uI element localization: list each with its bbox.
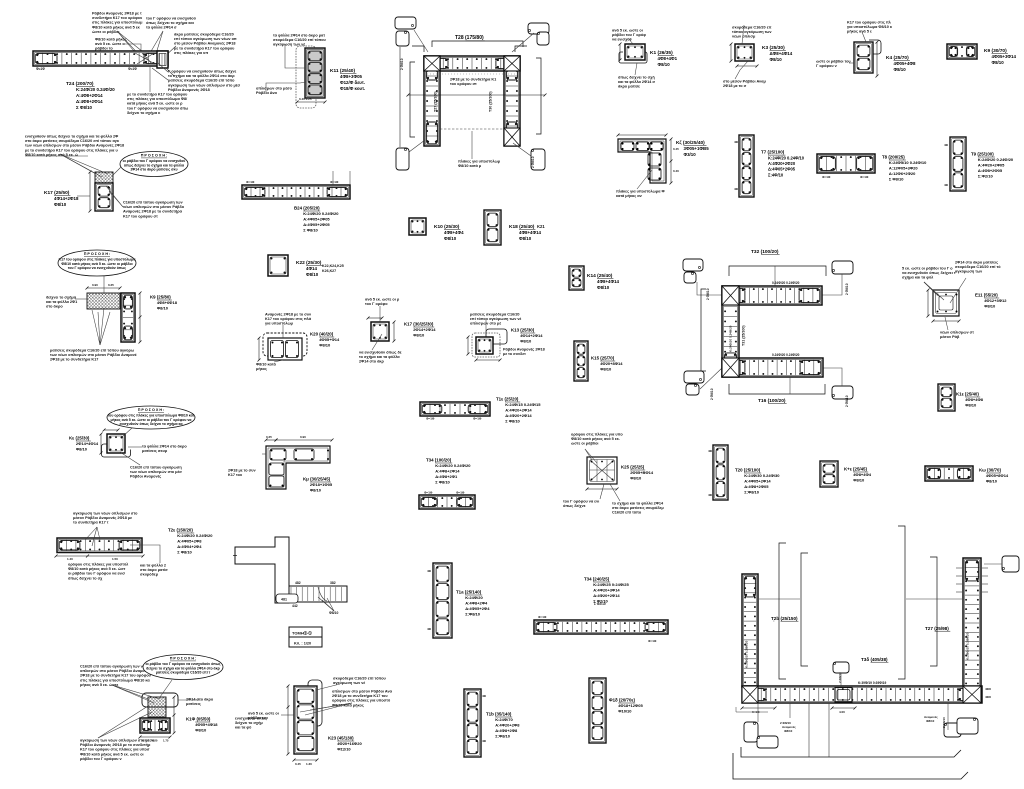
- svg-text:Κμ (30/25/45): Κμ (30/25/45): [303, 477, 331, 482]
- label T1e: [496, 397, 541, 424]
- svg-text:0.25: 0.25: [266, 435, 272, 439]
- highlighted stirrup box U mid: [835, 688, 852, 703]
- svg-text:Σ Φ8/10: Σ Φ8/10: [303, 228, 318, 233]
- leader fan A1-2: [150, 31, 163, 57]
- svg-text:Φ8/10: Φ8/10: [319, 343, 331, 348]
- note text T28 bottom: [458, 159, 501, 168]
- note text K17b bottom: [359, 350, 402, 363]
- svg-text:Φ8/10: Φ8/10: [853, 478, 865, 483]
- svg-text:Δ:4Φ8+2Φ05: Δ:4Φ8+2Φ05: [978, 168, 1003, 173]
- svg-text:4Φ05+4Φ18: 4Φ05+4Φ18: [195, 722, 218, 727]
- svg-text:Σ:Φ8/10: Σ:Φ8/10: [495, 734, 511, 739]
- svg-text:να ενισχυθούν όπως δε: να ενισχυθούν όπως δε: [359, 350, 402, 354]
- svg-text:όπως δείχνε: όπως δείχνε: [563, 504, 586, 508]
- svg-text:ματίσεις σκυρόδεμα C16/20: ματίσεις σκυρόδεμα C16/20: [470, 312, 520, 316]
- note text T28 mid: [450, 77, 496, 86]
- beam section K9: [947, 44, 977, 59]
- svg-text:4Φ8+4Φ8: 4Φ8+4Φ8: [965, 397, 984, 402]
- column section K23: [294, 686, 317, 754]
- leader fan mid: [92, 308, 110, 345]
- svg-text:Κ:3ΦΦ/10 0.2Φ8/20: Κ:3ΦΦ/10 0.2Φ8/20: [745, 640, 749, 668]
- bracket U right inner: [930, 557, 937, 666]
- svg-text:C16/20 επί τόπο: C16/20 επί τόπο: [612, 511, 642, 515]
- note text K1 top: [612, 28, 646, 41]
- svg-text:382: 382: [330, 581, 336, 585]
- svg-text:και τα φύ: και τα φύ: [235, 726, 252, 730]
- svg-text:Φ8/10: Φ8/10: [770, 57, 783, 62]
- column K11 wavy jacket: [296, 46, 316, 108]
- svg-text:Κ17 του ορόφου στις πλάκες για: Κ17 του ορόφου στις πλάκες για υποσ: [80, 748, 150, 752]
- dimension K17b top: [367, 317, 384, 320]
- label K14: [587, 273, 620, 290]
- hatched jacket K17: [95, 172, 113, 183]
- leader Km: [262, 453, 266, 455]
- svg-text:Φ8/10: Φ8/10: [986, 479, 998, 484]
- leader U right top: [984, 563, 1002, 565]
- svg-text:Α:4Φ8+2Φ14: Α:4Φ8+2Φ14: [435, 469, 460, 474]
- column section K25: [587, 457, 617, 484]
- label K10: [434, 224, 464, 241]
- svg-text:Α:4Φ05+2Φ8: Α:4Φ05+2Φ8: [177, 539, 202, 544]
- svg-text:Σ Φ8/10: Σ Φ8/10: [889, 177, 904, 182]
- svg-text:4Φ14+2Φ18: 4Φ14+2Φ18: [54, 196, 79, 201]
- svg-text:5 εκ. ώστε οι ράβδοι του Γ ο: 5 εκ. ώστε οι ράβδοι του Γ ο: [902, 266, 953, 270]
- dimension K17b right: [393, 321, 396, 343]
- svg-text:4Φ8+6Φ18: 4Φ8+6Φ18: [157, 300, 178, 305]
- svg-text:με το συνδετ: με το συνδετ: [503, 352, 526, 356]
- svg-text:0.90: 0.90: [300, 435, 306, 439]
- svg-text:ενισχυθούν όπως δείχνει το σχή: ενισχυθούν όπως δείχνει το σχήμα και τα …: [25, 134, 118, 138]
- svg-text:Δ:4Φ8+2Φ05: Δ:4Φ8+2Φ05: [744, 484, 769, 489]
- leader C BL: [700, 368, 722, 389]
- svg-text:2Φ14 στο άκρο ματίσεις: 2Φ14 στο άκρο ματίσεις: [955, 260, 998, 264]
- svg-text:2Φ14 στο άκρο: 2Φ14 στο άκρο: [186, 697, 214, 701]
- note text A1-3: [174, 32, 237, 55]
- leader anamones left: [789, 703, 791, 718]
- svg-text:Τ34 (100/20): Τ34 (100/20): [426, 458, 452, 463]
- column section E11: [933, 290, 959, 316]
- note text T19 br: [140, 563, 168, 576]
- svg-text:οι ράβδοι του Γ ορόφου να ενισ: οι ράβδοι του Γ ορόφου να ενισ: [68, 572, 125, 576]
- svg-text:C16/20 επί τόπου αγκύρωση των: C16/20 επί τόπου αγκύρωση των: [123, 200, 183, 204]
- svg-text:Φ8/10: Φ8/10: [444, 236, 457, 241]
- connector line U left: [759, 598, 800, 600]
- label K17b: [404, 322, 436, 338]
- L-section K6: [618, 139, 666, 183]
- svg-text:Κ1ε (25/40): Κ1ε (25/40): [956, 392, 979, 397]
- note text K23 top: [333, 676, 387, 685]
- dimension K19 bottom: [139, 736, 172, 739]
- svg-text:του Γ ορόφου να ενισχυθούν όπω: του Γ ορόφου να ενισχυθούν όπως: [68, 266, 126, 270]
- beam T24 right end block: [157, 51, 168, 68]
- note text K19 right: [235, 716, 267, 729]
- svg-text:Τ2b (25/150): Τ2b (25/150): [771, 616, 798, 621]
- svg-text:Τ1ε (25/20): Τ1ε (25/20): [496, 397, 519, 402]
- svg-text:Φ8/10: Φ8/10: [926, 719, 935, 723]
- hook U BR a: [944, 723, 961, 737]
- svg-text:Φ=1Φ: Φ=1Φ: [456, 491, 465, 495]
- svg-text:2Φ05+ΒΦ14: 2Φ05+ΒΦ14: [630, 470, 654, 475]
- big bottom bracket outer: [733, 753, 968, 779]
- beam section T8: [817, 154, 875, 173]
- leader K17 long: [25, 155, 88, 157]
- svg-text:ματίσεις: ματίσεις: [186, 702, 201, 706]
- dimension K23 bottom: [293, 759, 319, 762]
- svg-text:Φ12/Φ δευτ.: Φ12/Φ δευτ.: [340, 80, 365, 85]
- svg-text:κατά μήκος ανά 5 εκ. ώστε οι ρ: κατά μήκος ανά 5 εκ. ώστε οι ρ: [127, 102, 183, 106]
- corner hook T28 TL-b: [396, 31, 409, 46]
- column section K1: [625, 44, 645, 60]
- wall arm end tick: [233, 555, 237, 557]
- leader T19 label: [130, 545, 160, 563]
- svg-text:Φ8/10 κατά μ: Φ8/10 κατά μ: [458, 164, 482, 168]
- leader T28 bottom: [471, 131, 473, 159]
- column section Ke2: [820, 461, 838, 487]
- svg-text:2Φ18+1Φ05: 2Φ18+1Φ05: [310, 482, 333, 487]
- note text K3 top: [732, 25, 772, 38]
- column section K14: [569, 266, 584, 290]
- svg-text:0.45: 0.45: [673, 147, 679, 151]
- svg-text:Κ:39Φ/19 0:39Φ/19: Κ:39Φ/19 0:39Φ/19: [858, 681, 886, 685]
- label K15: [591, 356, 623, 372]
- svg-text:του Γ ορόφου να ενι: του Γ ορόφου να ενι: [563, 499, 599, 503]
- beam section K19: [140, 718, 170, 733]
- column section Keps: [938, 384, 955, 411]
- svg-text:ράβδοι του: ράβδοι του: [248, 716, 269, 720]
- corner hook C BR: [832, 386, 853, 399]
- connector line U right: [906, 598, 962, 600]
- svg-text:τα φύλλα 2Φ14 στο άκρο: τα φύλλα 2Φ14 στο άκρο: [142, 444, 187, 448]
- note text A1-5: [168, 69, 240, 92]
- svg-text:Σ Φ2/10: Σ Φ2/10: [594, 602, 606, 606]
- label K6: [676, 140, 709, 157]
- dimension K13 bottom: [475, 359, 502, 362]
- svg-text:Π Ρ Ο Σ Ο Χ Η :: Π Ρ Ο Σ Ο Χ Η :: [84, 252, 111, 256]
- label K13: [511, 328, 543, 344]
- svg-text:για υποστύλωμ: για υποστύλωμ: [265, 322, 294, 326]
- svg-text:σχήμα και τα φύλ: σχήμα και τα φύλ: [902, 276, 934, 280]
- svg-text:Σ Φ8/10: Σ Φ8/10: [505, 419, 520, 424]
- column section T18: [589, 678, 606, 743]
- note text Km left: [228, 468, 256, 477]
- beam section T19: [57, 538, 142, 553]
- corner joint T28 TR: [504, 56, 520, 71]
- beam section Kw: [925, 466, 973, 481]
- label T18: [609, 698, 643, 714]
- svg-text:το σχήμα και τα φύλλα 2Φ14: το σχήμα και τα φύλλα 2Φ14: [612, 501, 664, 505]
- svg-text:Ράβδοι Αναμονές 2Φ18 με το συν: Ράβδοι Αναμονές 2Φ18 με το συνδετήρ: [80, 743, 151, 747]
- label T34a: [426, 458, 471, 485]
- svg-text:στο άκρο: στο άκρο: [46, 305, 63, 309]
- svg-text:στο μέσον Ράβδοι Αναμονές 2Φ18: στο μέσον Ράβδοι Αναμονές 2Φ18: [174, 42, 235, 46]
- label E11: [975, 293, 1007, 309]
- dimension K6 top: [617, 134, 668, 137]
- svg-text:Τ28 (175/80): Τ28 (175/80): [455, 35, 484, 41]
- svg-text:Κ25 (25/25): Κ25 (25/25): [621, 465, 645, 470]
- svg-text:ώστε οι ράβδοι του: ώστε οι ράβδοι του: [816, 59, 851, 63]
- hook overlay K13: [486, 329, 507, 344]
- beam section B24: [242, 185, 350, 199]
- label T16: [758, 398, 787, 404]
- leader K19 ellipse: [160, 680, 172, 697]
- svg-text:4Φ8+4Φ14: 4Φ8+4Φ14: [597, 279, 620, 284]
- label T24: [66, 81, 115, 110]
- svg-text:2 Φ8/10: 2 Φ8/10: [706, 288, 710, 300]
- svg-text:Α:4Φ20+2Φ8: Α:4Φ20+2Φ8: [495, 723, 520, 728]
- svg-text:Κ13 (25/30): Κ13 (25/30): [511, 328, 535, 333]
- svg-text:Κ:24Φ/20 0.24Φ/20: Κ:24Φ/20 0.24Φ/20: [177, 533, 213, 538]
- label 481 box: [276, 594, 298, 603]
- beam C top: [722, 286, 822, 305]
- corner hook C BL-b: [686, 384, 699, 395]
- svg-text:στο άκρο ματίσεις σκυρόδεμα C1: στο άκρο ματίσεις σκυρόδεμα C16/20 επί τ…: [25, 139, 120, 143]
- svg-text:να ενισχυθούν όπως δείχνει τ: να ενισχυθούν όπως δείχνει τ: [902, 271, 956, 275]
- svg-text:442: 442: [292, 604, 298, 608]
- leader fan K25: [585, 449, 597, 463]
- svg-text:Φ8/10 κατά μήκος ανά 5 εκ. ώστ: Φ8/10 κατά μήκος ανά 5 εκ. ώστε οι: [80, 752, 144, 756]
- svg-text:2Φ14+2Φ14: 2Φ14+2Φ14: [413, 327, 436, 332]
- leader T16: [789, 377, 791, 394]
- hatched beam mid: [87, 293, 120, 309]
- note text K13 bottom: [503, 347, 545, 356]
- svg-text:C16/20 επί τόπου αγκύρωση των: C16/20 επί τόπου αγκύρωση των νέων: [80, 664, 150, 668]
- svg-text:Κ:24Φ/20 0.24Φ/20: Κ:24Φ/20 0.24Φ/20: [76, 87, 115, 92]
- svg-text:στις πλάκες για υποστύλωμα Φ8/: στις πλάκες για υποστύλωμα Φ8/: [127, 97, 188, 101]
- svg-text:Π Ρ Ο Σ Ο Χ Η :: Π Ρ Ο Σ Ο Χ Η :: [141, 154, 168, 158]
- svg-text:Φ=1Φ: Φ=1Φ: [822, 175, 831, 179]
- svg-text:Β24 (205/20): Β24 (205/20): [294, 206, 320, 211]
- svg-text:του Γ ορόφο: του Γ ορόφο: [365, 302, 388, 306]
- leader K6: [637, 170, 652, 189]
- svg-text:Κ22,Κ24,Κ25: Κ22,Κ24,Κ25: [322, 264, 344, 268]
- svg-text:Π Ρ Ο Σ Ο Χ Η :: Π Ρ Ο Σ Ο Χ Η :: [138, 408, 165, 412]
- svg-text:οπλισμών στο μέσο: οπλισμών στο μέσο: [256, 86, 293, 90]
- svg-text:μέσον Ράβδοι Αναμονές 2Φ18 με: μέσον Ράβδοι Αναμονές 2Φ18 με: [73, 516, 132, 520]
- svg-text:Φ=1Φ: Φ=1Φ: [538, 615, 547, 619]
- svg-text:Αναμονές 2Φ18 με το συνδετήρα: Αναμονές 2Φ18 με το συνδετήρα: [123, 210, 183, 214]
- corner hook T28 TL-a: [395, 17, 416, 29]
- leader K25 b: [600, 484, 604, 499]
- column section T7: [739, 135, 754, 197]
- label T34b: [584, 577, 629, 604]
- svg-text:στις πλάκες για υποστύλωμα Φ8/: στις πλάκες για υποστύλωμα Φ8/10 κα: [80, 678, 150, 682]
- note text Ka right: [142, 444, 187, 453]
- svg-text:4Φ20+16Φ20: 4Φ20+16Φ20: [337, 741, 362, 746]
- column section T1b: [464, 689, 481, 757]
- column section K22: [268, 255, 288, 276]
- leader Ka diag: [120, 452, 140, 465]
- svg-text:μέσον Ράβ: μέσον Ράβ: [940, 335, 960, 339]
- svg-text:2 Φ8/10: 2 Φ8/10: [710, 388, 714, 400]
- svg-text:όπως δείχνει το σχ: όπως δείχνει το σχ: [68, 576, 103, 580]
- label T8: [882, 155, 927, 182]
- note text E11 a: [902, 266, 956, 279]
- svg-text:2 Φ8/10: 2 Φ8/10: [838, 672, 842, 683]
- svg-text:4Φ: 4Φ: [944, 143, 949, 147]
- note text E11 bottom: [940, 330, 974, 339]
- svg-text:Α:4Φ20+2Φ05: Α:4Φ20+2Φ05: [978, 163, 1005, 168]
- svg-text:αγκύρωση των: αγκύρωση των: [955, 270, 982, 274]
- note text K20 top: [265, 312, 312, 325]
- corner hook T28 TR-a: [528, 23, 549, 34]
- svg-text:σκυρόδεμα C16/20 επί τό: σκυρόδεμα C16/20 επί τό: [955, 265, 1001, 269]
- leader K19 right: [178, 699, 200, 701]
- label T28: [455, 35, 485, 41]
- L-section Km: [266, 446, 330, 489]
- svg-text:Φ8/10: Φ8/10: [600, 367, 612, 372]
- note text A1-4: [95, 37, 127, 50]
- label K11: [330, 68, 365, 91]
- svg-text:Τ20 (25/100): Τ20 (25/100): [735, 468, 761, 473]
- leader K17b diag: [372, 334, 382, 350]
- svg-text:επί τόπου αγκύρωση των νέ: επί τόπου αγκύρωση των νέ: [470, 317, 521, 321]
- svg-text:Κ17 του ορόφου στις πλ: Κ17 του ορόφου στις πλ: [847, 20, 892, 24]
- svg-text:Κ21: Κ21: [537, 224, 545, 229]
- svg-text:4Φ18+12Φ05: 4Φ18+12Φ05: [618, 703, 643, 708]
- svg-text:και τα φύλλα 2Φ1: και τα φύλλα 2Φ1: [46, 300, 77, 304]
- dimension Km top b: [275, 439, 334, 442]
- svg-text:Σ:4Φ/10: Σ:4Φ/10: [768, 172, 784, 177]
- column section K10: [409, 218, 426, 235]
- svg-text:Κ:24Φ/30 0.24Φ/30: Κ:24Φ/30 0.24Φ/30: [744, 473, 780, 478]
- svg-text:Ε11 (55/20): Ε11 (55/20): [975, 293, 998, 298]
- svg-text:4Φ05+3Φ14: 4Φ05+3Φ14: [992, 54, 1017, 59]
- svg-text:Φ=1Φ: Φ=1Φ: [246, 180, 255, 184]
- svg-text:Κ:24Φ/25 0:24Φ/25: Κ:24Φ/25 0:24Φ/25: [593, 582, 629, 587]
- leader K23 top: [316, 684, 340, 690]
- svg-text:Τ27 (25/98): Τ27 (25/98): [925, 626, 949, 631]
- leader U mid: [840, 673, 842, 687]
- note text E11 b: [955, 260, 1001, 273]
- svg-text:το συνδετήρα Κ17 τ: το συνδετήρα Κ17 τ: [73, 521, 109, 525]
- label K1: [650, 50, 678, 67]
- svg-text:ματίσεις σκυρόδεμα C16/20 επί: ματίσεις σκυρόδεμα C16/20 επί τόπου αγκύ…: [50, 348, 135, 352]
- svg-text:Τ31 (25/100): Τ31 (25/100): [742, 325, 746, 346]
- leader fan A1-1: [117, 31, 148, 60]
- svg-text:Τ8 (200/25): Τ8 (200/25): [882, 155, 905, 160]
- svg-text:τόπου αγκύρωση των: τόπου αγκύρωση των: [732, 30, 772, 34]
- dim line U bottom left: [736, 707, 768, 712]
- svg-text:4Φ: 4Φ: [708, 493, 713, 497]
- label K4: [886, 55, 916, 72]
- note text K13 top: [470, 312, 521, 325]
- svg-text:νέων οπλισμών στ: νέων οπλισμών στ: [940, 330, 974, 334]
- svg-text:Τ9 (25/100): Τ9 (25/100): [971, 152, 994, 157]
- svg-text:Τ1a (25/140): Τ1a (25/140): [456, 590, 482, 595]
- boot outline Ka: [102, 444, 131, 457]
- svg-text:Ράβδοι Αναμονές 2Φ18: Ράβδοι Αναμονές 2Φ18: [503, 347, 545, 351]
- leader T28 BR hook: [513, 143, 531, 156]
- note text T19 top: [73, 511, 138, 524]
- leader K17 label: [77, 195, 90, 197]
- svg-text:ματίσεις σκυρ: ματίσεις σκυρ: [142, 449, 168, 453]
- dimension T28 left vertical: [399, 47, 401, 147]
- leader T28 TL hook: [414, 30, 428, 52]
- svg-text:4.00: 4.00: [839, 710, 845, 714]
- svg-text:Φ3/10: Φ3/10: [684, 152, 697, 157]
- svg-text:Τ27 (25/100): Τ27 (25/100): [434, 91, 438, 112]
- leader K23 left: [281, 714, 294, 716]
- note text T19 bottom: [68, 562, 129, 580]
- svg-text:2 Φ8/10: 2 Φ8/10: [845, 283, 849, 295]
- dimension mid right: [139, 292, 142, 344]
- svg-text:Φ8/10: Φ8/10: [519, 236, 532, 241]
- svg-text:Γ ορόφου ν: Γ ορόφου ν: [816, 64, 837, 68]
- svg-text:Κω (30/70): Κω (30/70): [979, 468, 1001, 473]
- svg-text:ώστε οι ράβδοι: ώστε οι ράβδοι: [571, 442, 598, 446]
- svg-text:4Φ05+4Φ8: 4Φ05+4Φ8: [894, 61, 917, 66]
- svg-text:482: 482: [295, 581, 301, 585]
- column section Ka: [107, 434, 125, 453]
- label T26top: [0, 0, 774, 621]
- leader K3 b: [735, 61, 748, 79]
- svg-text:4Φ05+Φ14: 4Φ05+Φ14: [319, 337, 340, 342]
- bracket C bottom: [729, 384, 825, 394]
- svg-text:4Φ: 4Φ: [427, 569, 432, 573]
- svg-text:Α:4Φ20+2Φ20: Α:4Φ20+2Φ20: [768, 161, 796, 166]
- note text K19 top: [80, 664, 152, 687]
- svg-text:Φ8/10: Φ8/10: [984, 304, 996, 309]
- funnel lines T24 right end: [152, 68, 174, 80]
- dimension Ka left: [100, 433, 103, 455]
- svg-text:Κ:24Φ5/10 0.24Φ/10: Κ:24Φ5/10 0.24Φ/10: [889, 160, 927, 165]
- svg-text:ΚΛ. : 1/20: ΚΛ. : 1/20: [294, 642, 311, 646]
- svg-text:Τ1b (35/140): Τ1b (35/140): [486, 712, 512, 717]
- svg-text:Φ8/10: Φ8/10: [413, 333, 425, 338]
- svg-text:Φ=1Φ: Φ=1Φ: [473, 417, 482, 421]
- leader fan T19: [85, 527, 100, 546]
- column C left: [722, 286, 739, 377]
- svg-text:τα φύλλα 2Φ14 στο άκρο ματ: τα φύλλα 2Φ14 στο άκρο ματ: [273, 33, 325, 37]
- note text Ka bottom: [130, 465, 182, 478]
- svg-text:Κ:24Φ/20 0.24Φ/20: Κ:24Φ/20 0.24Φ/20: [435, 463, 471, 468]
- svg-text:Ράβδοι Αναμονές: Ράβδοι Αναμονές: [130, 475, 161, 479]
- svg-text:Α:4Φ05+2Φ05: Α:4Φ05+2Φ05: [303, 217, 330, 222]
- note text K23 mid: [332, 689, 393, 707]
- label K25: [621, 465, 654, 481]
- dimension T28 horizontal: [407, 94, 547, 97]
- label T20: [735, 468, 780, 495]
- svg-text:2 Φ8/10: 2 Φ8/10: [400, 58, 404, 70]
- svg-text:ορόφου στις πλάκες για υποστύλ: ορόφου στις πλάκες για υποστύλ: [68, 562, 129, 566]
- svg-text:Φ8/10: Φ8/10: [306, 272, 319, 277]
- svg-text:των νέων οπλισμών στο μέσ: των νέων οπλισμών στο μέσ: [130, 470, 182, 474]
- svg-text:Τ2ε (150/20): Τ2ε (150/20): [168, 528, 193, 533]
- svg-text:του Γ ορόφου να ενισχυθούν όπω: του Γ ορόφου να ενισχυθούν όπω: [127, 106, 189, 110]
- dimension E11 bottom: [932, 320, 961, 323]
- svg-text:μήκος ανά 5 ε: μήκος ανά 5 ε: [847, 30, 872, 34]
- svg-text:0.25: 0.25: [108, 283, 114, 287]
- svg-text:ΤΟΜΗ➀-➀: ΤΟΜΗ➀-➀: [292, 631, 312, 636]
- beam section T34a: [419, 495, 475, 509]
- svg-text:Α:4Φ05+2Φ14: Α:4Φ05+2Φ14: [744, 479, 771, 484]
- dimension C inner: [744, 329, 746, 331]
- svg-text:Φ=1Φ: Φ=1Φ: [860, 175, 869, 179]
- svg-text:4Φ20+8Φ14: 4Φ20+8Φ14: [600, 361, 623, 366]
- svg-text:4Φ: 4Φ: [482, 694, 487, 698]
- bracket U left inner: [801, 553, 808, 666]
- column section K18: [484, 210, 501, 245]
- svg-text:4Φ: 4Φ: [734, 187, 739, 191]
- dimension U mid bottom: [831, 707, 857, 710]
- leader C TL: [697, 282, 722, 295]
- corner hook C TR: [832, 261, 853, 274]
- svg-text:Δ:4Φ8+2Φ14: Δ:4Φ8+2Φ14: [76, 99, 103, 104]
- note text K17 main: [25, 134, 124, 157]
- svg-text:4Φ05+8Φ14: 4Φ05+8Φ14: [986, 473, 1009, 478]
- K6 rebar dots: [621, 142, 662, 179]
- svg-text:481: 481: [281, 598, 287, 602]
